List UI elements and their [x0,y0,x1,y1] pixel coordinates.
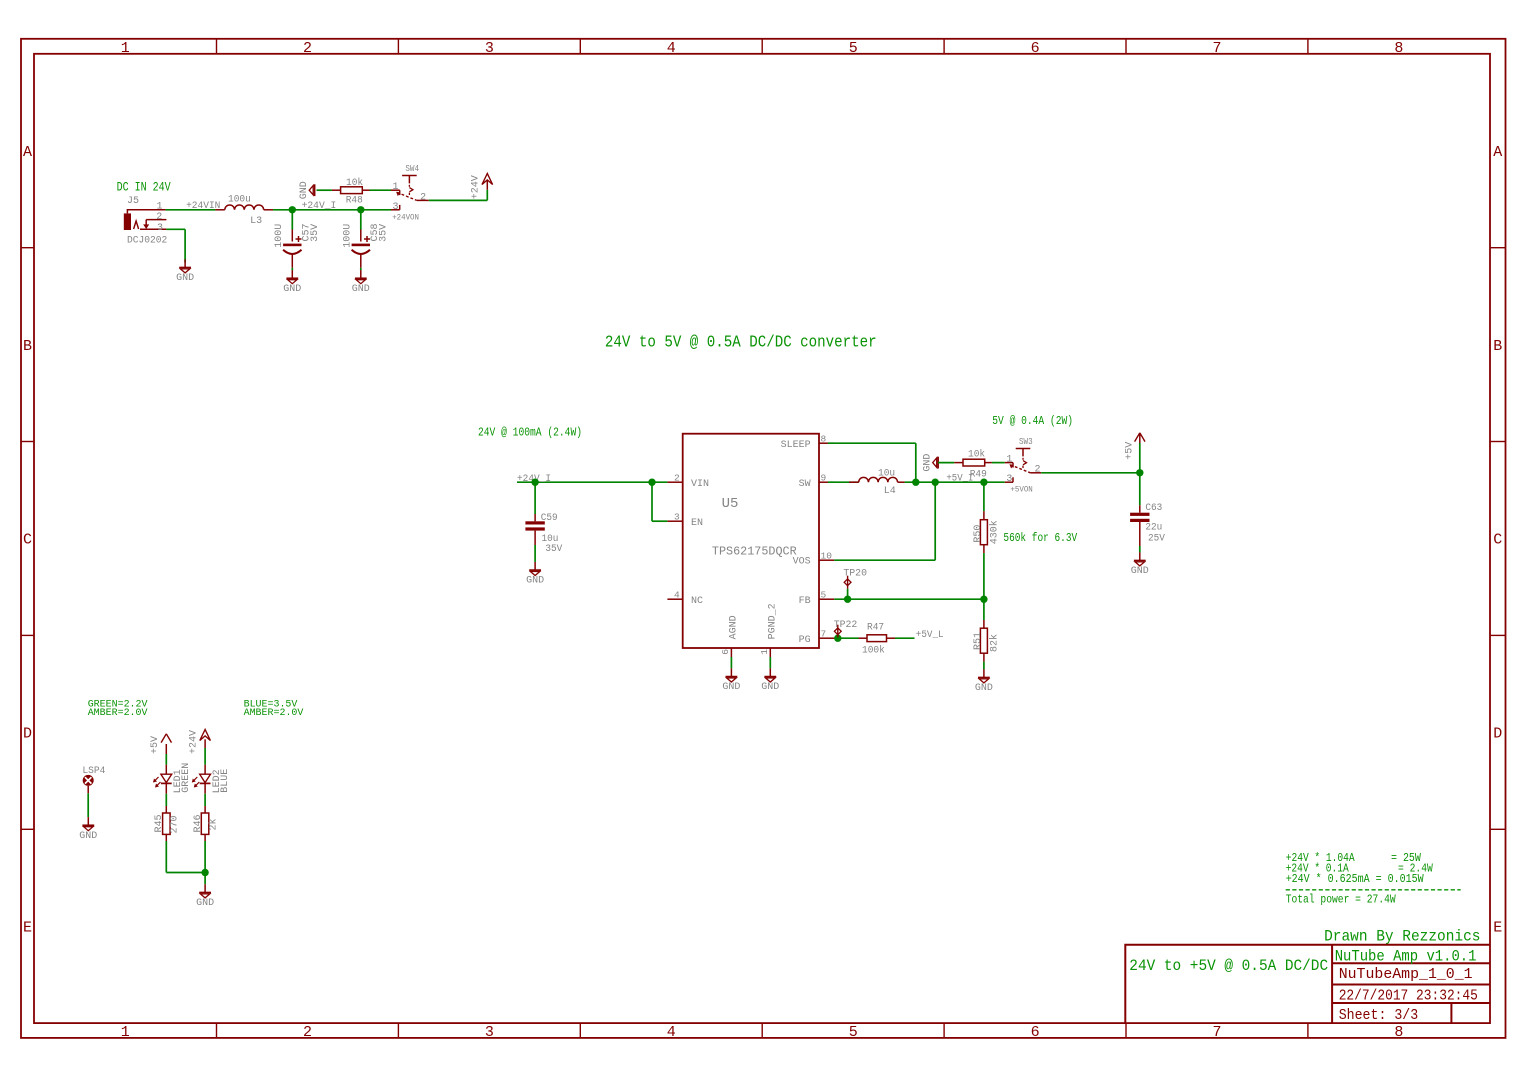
svg-text:L4: L4 [884,486,896,497]
svg-text:SW4: SW4 [405,164,419,174]
J5 pin 3 [140,228,166,230]
wire J5 pin3 to GND [166,228,185,230]
svg-text:EN: EN [691,518,703,529]
svg-text:35V: 35V [310,224,321,242]
svg-text:+5V: +5V [1125,442,1136,460]
svg-text:7: 7 [821,629,827,640]
svg-text:+24VON: +24VON [392,213,419,222]
svg-text:GND: GND [761,682,779,693]
svg-text:NC: NC [691,596,703,607]
resistor R49 10k [954,462,963,464]
svg-text:SW: SW [799,479,811,490]
ground below U5 pin 6 [730,657,732,668]
svg-text:AGND: AGND [728,615,739,639]
U5 pin 7 PG [819,637,834,639]
svg-text:GND: GND [352,284,370,295]
wire LED1 to R45 [165,783,167,793]
title block outline [1125,945,1490,1023]
svg-text:3: 3 [674,512,680,523]
svg-text:1: 1 [121,40,130,57]
svg-text:NuTube Amp v1.0.1: NuTube Amp v1.0.1 [1335,947,1477,965]
svg-text:4: 4 [674,590,680,601]
svg-text:SLEEP: SLEEP [781,440,811,451]
switch SW4 blade [397,192,417,200]
svg-text:82k: 82k [989,634,1001,652]
svg-text:VIN: VIN [691,479,709,490]
U5 pin 10 VOS [819,559,834,561]
LED LED2 BLUE [200,774,211,782]
junction FB/R50 [980,596,987,603]
LED LED1 GREEN [161,774,172,782]
svg-text:E: E [23,919,32,936]
svg-text:5V @ 0.4A (2W): 5V @ 0.4A (2W) [992,414,1073,428]
ground below C63 [1139,552,1141,560]
svg-text:5: 5 [849,40,858,57]
note separator dashes [1286,889,1461,891]
switch SW4 pin 2 [417,199,429,201]
wire R49 to SW3 pin1 [992,462,1005,464]
svg-text:TP20: TP20 [843,568,867,579]
ground left of R48 [314,184,316,196]
svg-text:22/7/2017 23:32:45: 22/7/2017 23:32:45 [1339,987,1478,1004]
ground below LSP4 [87,817,89,825]
svg-text:+24V_I: +24V_I [302,201,337,212]
svg-text:AMBER=2.0V: AMBER=2.0V [88,708,148,719]
svg-text:100U: 100U [342,224,353,248]
resistor R50 430k [983,482,985,511]
inductor L4 10u [828,481,859,483]
svg-text:1: 1 [393,182,399,193]
ground below LEDs [204,884,206,892]
svg-text:PG: PG [799,635,811,646]
wire R48 to SW4 pin1 [370,189,392,191]
svg-text:GND: GND [176,273,194,284]
svg-text:J5: J5 [127,196,139,207]
U5 pin 8 SLEEP [819,442,834,444]
junction EN branch [648,479,655,486]
svg-text:3: 3 [485,40,494,57]
wire to LED ground [204,873,206,885]
svg-text:C: C [1493,532,1502,549]
J5 center pin contact [134,221,139,229]
svg-text:+24V: +24V [188,730,199,754]
svg-text:2k: 2k [207,818,219,830]
svg-text:GND: GND [1131,566,1149,577]
svg-text:100u: 100u [228,194,251,205]
wire R50 to FB [983,553,985,599]
resistor R48 10k [332,189,341,191]
svg-text:PGND_2: PGND_2 [767,603,778,639]
svg-text:U5: U5 [722,496,739,512]
wire +24VIN [166,209,216,211]
ground below J5 [184,259,186,267]
svg-text:+5V_L: +5V_L [916,630,944,641]
svg-text:+5V: +5V [150,736,161,754]
U5 pin 1 PGND_2 [769,648,771,657]
ground below R51 [983,669,985,677]
junction R50 top [980,479,987,486]
svg-text:VOS: VOS [793,557,811,568]
wire SW3 pin2 to +5V/C63 [1041,472,1140,474]
frame row ticks [21,247,34,249]
svg-text:C59: C59 [541,513,558,524]
wire LSP4 to GND [87,786,89,793]
svg-text:R49: R49 [970,469,987,480]
resistor R45 270 [165,806,167,813]
junction SLEEP node [912,479,919,486]
switch SW3 pin 3 [1005,481,1013,483]
svg-text:GND: GND [196,898,214,909]
svg-text:Total power = 27.4W: Total power = 27.4W [1286,893,1397,907]
svg-text:R48: R48 [346,195,363,206]
svg-text:SW3: SW3 [1019,437,1033,447]
svg-text:R46: R46 [193,814,204,832]
junction at C57 [289,206,296,213]
test point TP20 [847,589,849,600]
svg-text:2: 2 [420,193,426,204]
svg-text:3: 3 [157,223,163,234]
capacitor C57 100U 35V [291,210,293,230]
svg-text:3: 3 [393,202,399,213]
svg-text:100k: 100k [862,644,885,656]
svg-text:1: 1 [121,1024,130,1041]
power +24V for LED2 [200,730,211,741]
svg-text:Drawn By Rezzonics: Drawn By Rezzonics [1324,928,1480,946]
svg-text:GND: GND [283,284,301,295]
J5 pin 2 switch contact [146,219,166,221]
svg-text:GND: GND [79,831,97,842]
wire +5V to LED1 [165,754,167,765]
svg-text:D: D [1493,726,1502,743]
inductor L3 [215,209,224,211]
U5 pin 9 SW [819,481,834,483]
capacitor C63 22u 25V [1139,473,1141,506]
svg-text:4: 4 [667,1024,676,1041]
svg-text:2: 2 [156,212,162,223]
svg-text:FB: FB [799,596,811,607]
junction VOS node [932,479,939,486]
svg-text:1: 1 [1006,455,1012,466]
U5 pin 4 NC [667,598,682,600]
wire L3 to SW4 pin3 [273,209,391,211]
svg-text:A: A [23,144,32,161]
svg-text:3: 3 [485,1024,494,1041]
U5 pin 6 AGND [730,648,732,657]
svg-text:L3: L3 [250,216,262,227]
svg-text:100U: 100U [274,224,285,248]
svg-text:10u: 10u [878,468,895,479]
resistor R47 100k [859,637,868,639]
svg-text:7: 7 [1212,1024,1221,1041]
power +24V [482,174,493,185]
svg-text:DCJ0202: DCJ0202 [127,236,167,247]
svg-text:5: 5 [821,590,827,601]
svg-text:GND: GND [722,682,740,693]
svg-text:430k: 430k [989,520,1001,544]
power +5V at C63 [1139,443,1141,473]
resistor R46 2k [204,806,206,813]
svg-text:NuTubeAmp_1_0_1: NuTubeAmp_1_0_1 [1339,966,1473,983]
svg-text:E: E [1493,919,1502,936]
svg-text:9: 9 [821,473,827,484]
wire EN branch [651,482,653,521]
ground below U5 pin 1 [769,657,771,668]
svg-text:22u: 22u [1145,522,1162,533]
svg-text:5: 5 [849,1024,858,1041]
svg-text:10k: 10k [968,448,985,460]
wire PG to R47 [834,637,858,639]
svg-text:GREEN: GREEN [181,763,192,793]
switch SW3 pin 1 [1005,462,1013,464]
svg-text:C: C [23,532,32,549]
ground left of R49 [937,457,939,469]
wire SLEEP to +5V_I node [828,442,916,444]
svg-text:GND: GND [975,683,993,694]
ground below C59 [534,562,536,570]
svg-text:8: 8 [821,434,827,445]
wire LED2 to R46 [204,783,206,793]
svg-text:B: B [23,338,32,355]
wire FB line [834,598,984,600]
svg-text:A: A [1493,144,1502,161]
svg-text:Sheet: 3/3: Sheet: 3/3 [1339,1007,1419,1024]
junction LED GND node [201,869,208,876]
frame column ticks [216,39,218,54]
junction TP22 [834,635,841,642]
wire VOS to +5V_I node [834,559,935,561]
junction C63 top [1136,469,1143,476]
svg-text:24V @ 100mA (2.4W): 24V @ 100mA (2.4W) [478,426,582,440]
switch SW4 pin 1 [391,189,400,191]
svg-text:270: 270 [170,815,181,833]
svg-text:3: 3 [1006,474,1012,485]
capacitor C59 10u 35V [534,482,536,514]
svg-text:560k for 6.3V: 560k for 6.3V [1003,531,1077,545]
wire R46 to GND node [204,841,206,873]
svg-text:6: 6 [1031,40,1040,57]
wire SW4 pin2 to +24V [429,199,488,201]
wire GND to R48 [317,189,332,191]
svg-text:+24VIN: +24VIN [186,201,220,212]
switch SW3 actuator bar [1016,448,1031,450]
svg-text:24V to 5V @ 0.5A DC/DC convert: 24V to 5V @ 0.5A DC/DC converter [605,334,877,353]
svg-text:8: 8 [1394,1024,1403,1041]
capacitor C58 100U 35V [360,210,362,230]
junction at C59 [531,479,538,486]
U5 pin 2 VIN [667,481,682,483]
junction TP20 [844,596,851,603]
svg-text:AMBER=2.0V: AMBER=2.0V [244,708,304,719]
svg-text:10: 10 [821,551,833,562]
svg-text:TP22: TP22 [834,620,858,631]
svg-text:24V to +5V @ 0.5A DC/DC: 24V to +5V @ 0.5A DC/DC [1129,957,1328,975]
switch SW4 actuator bar [402,175,417,177]
op-amp U5 TPS62175DQCR body [683,434,819,648]
svg-text:1: 1 [157,201,163,212]
junction at C58 [357,206,364,213]
svg-text:BLUE: BLUE [220,769,231,793]
svg-text:DC IN 24V: DC IN 24V [117,180,171,195]
ground below C57 [291,270,293,278]
wire +24V to LED2 [204,748,206,765]
svg-text:2: 2 [1035,464,1041,475]
svg-text:7: 7 [1212,40,1221,57]
svg-text:TPS62175DQCR: TPS62175DQCR [712,545,797,559]
svg-text:R45: R45 [154,814,165,832]
svg-text:35V: 35V [545,544,562,555]
svg-text:25V: 25V [1148,534,1165,545]
wire R47 to +5V_L [895,637,915,639]
power +5V for LED1 [161,734,166,743]
svg-text:6: 6 [1031,1024,1040,1041]
svg-text:D: D [23,726,32,743]
U5 pin 3 EN [667,520,682,522]
wire R45 to GND node [165,841,167,873]
ground below C58 [360,270,362,278]
svg-text:10k: 10k [346,177,363,189]
switch SW3 pin 2 [1030,472,1041,474]
svg-text:35V: 35V [379,224,390,242]
wire L4 to SW3 pin3 [905,481,1005,483]
svg-text:R51: R51 [973,632,984,650]
svg-text:R50: R50 [973,525,984,543]
svg-text:R47: R47 [867,622,884,633]
svg-text:C63: C63 [1145,503,1162,514]
svg-text:B: B [1493,338,1502,355]
svg-text:GND: GND [299,181,310,199]
svg-text:2: 2 [674,473,680,484]
svg-text:+5VON: +5VON [1010,486,1033,495]
svg-text:GND: GND [526,576,544,587]
svg-text:+24V * 0.625mA = 0.015W: +24V * 0.625mA = 0.015W [1286,872,1425,886]
svg-text:+24V: +24V [470,175,481,199]
svg-text:8: 8 [1394,40,1403,57]
wire +24V_I to U5 VIN [517,481,667,483]
resistor R51 82k [983,599,985,620]
svg-text:2: 2 [303,40,312,57]
wire GND to R49 [938,462,954,464]
svg-text:2: 2 [303,1024,312,1041]
switch SW4 pin 3 [391,209,400,211]
svg-text:GND: GND [923,454,934,472]
test point TP22 [837,637,839,639]
svg-text:1: 1 [759,649,770,655]
U5 pin 5 FB [819,598,834,600]
svg-text:6: 6 [720,649,731,655]
svg-text:4: 4 [667,40,676,57]
switch SW3 blade [1010,465,1030,473]
